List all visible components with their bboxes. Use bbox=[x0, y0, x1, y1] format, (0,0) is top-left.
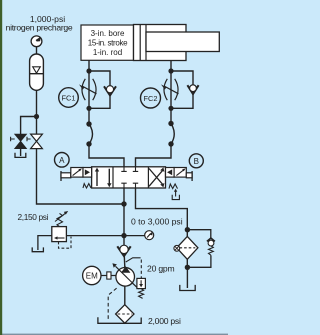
node: FC2 bottom junction bbox=[168, 106, 173, 111]
hose FC2 (flexible) bbox=[171, 124, 174, 145]
electric motor EM bbox=[83, 266, 101, 284]
wire: pump suction bbox=[124, 286, 126, 305]
node: FC1 hose top bbox=[86, 121, 91, 126]
bypass check valve CV2 bbox=[207, 238, 215, 241]
wire: to tank T2 bbox=[186, 267, 188, 288]
DV1 centre envelope blocked ports bbox=[121, 167, 138, 188]
tank T2 bbox=[180, 285, 195, 291]
svg-text:20 gpm: 20 gpm bbox=[147, 263, 175, 273]
left green border bbox=[0, 0, 2, 335]
svg-text:2,000 psi: 2,000 psi bbox=[148, 316, 181, 326]
tank T3 (reservoir) bbox=[98, 317, 141, 323]
return filter F2 bbox=[177, 236, 198, 259]
wire: rod-end port down (FC2 column) bbox=[170, 61, 172, 124]
wire: V1 to tank T1 bbox=[20, 149, 22, 156]
wire: valve T port to return filter bbox=[136, 188, 188, 236]
label: 1,000-psi nitrogen precharge bbox=[6, 14, 73, 32]
yoke link bbox=[133, 283, 137, 287]
compensator spring bbox=[139, 289, 144, 299]
DV1 pilot drain to tank bbox=[175, 191, 177, 197]
label circle FC2 bbox=[141, 88, 161, 108]
node: junction accumulator branch bbox=[34, 114, 39, 119]
cylinder spec box bbox=[81, 25, 134, 60]
wire: relief valve to tank bbox=[38, 236, 52, 250]
svg-text:15-in. stroke: 15-in. stroke bbox=[88, 39, 128, 48]
svg-text:1-in. rod: 1-in. rod bbox=[93, 48, 122, 57]
wire: relief valve output to P line bbox=[66, 235, 124, 237]
DV1 right spring bbox=[169, 184, 178, 189]
node: FC1 hose bottom bbox=[86, 141, 91, 146]
svg-text:0 to 3,000 psi: 0 to 3,000 psi bbox=[131, 217, 183, 227]
wire: hose to valve port B bbox=[136, 144, 172, 167]
cylinder C1 piston bbox=[139, 25, 141, 61]
handle mark V1 bbox=[11, 137, 15, 141]
shutoff valve V1 (closed, filled) bbox=[15, 134, 27, 149]
check valve CV-FC1 bbox=[104, 86, 116, 95]
DV1 right envelope crossed arrows bbox=[149, 171, 163, 187]
wire: gauge to accumulator bbox=[36, 47, 38, 55]
bottom hairline border bbox=[0, 334, 228, 335]
svg-text:B: B bbox=[194, 157, 199, 166]
cylinder C1 rod bbox=[146, 32, 219, 52]
accumulator A1 (gas-charged) bbox=[30, 54, 44, 90]
node: FC2 hose bottom bbox=[168, 141, 173, 146]
compensator valve bbox=[137, 278, 146, 288]
wire: bypass top rail bbox=[187, 230, 210, 239]
wire: bypass bottom rail bbox=[187, 255, 211, 267]
accumulator precharge gauge G1 bbox=[31, 36, 42, 47]
wire: hose to valve port A bbox=[89, 144, 124, 167]
node: P junction with relief/gauge bbox=[121, 233, 126, 238]
clogging indicator bbox=[174, 245, 180, 251]
svg-text:nitrogen precharge: nitrogen precharge bbox=[6, 22, 73, 32]
node: return bottom junction bbox=[185, 265, 190, 270]
pressure gauge G2 bbox=[145, 231, 154, 240]
DV1 right proportional solenoid bbox=[174, 168, 186, 178]
wire: cap-end port down (FC1 column) bbox=[88, 60, 90, 124]
flow control FC2 (adjustable) bbox=[164, 79, 179, 100]
wire: gauge stub bbox=[124, 235, 145, 237]
wire: check valve to pump bbox=[123, 256, 126, 267]
pump P1 (variable displacement) bbox=[116, 268, 135, 287]
wire: branch to shutoff valve V1 bbox=[21, 117, 37, 135]
DV1 left spring bbox=[83, 184, 91, 188]
wire: filter to tank junction bbox=[186, 259, 188, 267]
tank T-RV bbox=[32, 247, 43, 251]
svg-text:2,150 psi: 2,150 psi bbox=[18, 212, 49, 222]
svg-text:3-in. bore: 3-in. bore bbox=[91, 29, 125, 38]
node: FC2 top junction bbox=[168, 68, 173, 73]
flow control FC1 (adjustable) bbox=[82, 79, 97, 100]
wire: FC1 bypass loop bbox=[89, 71, 110, 87]
case drain (dashed) bbox=[108, 288, 116, 321]
check valve CV-FC2 bbox=[187, 85, 198, 94]
bypass spring bbox=[209, 246, 214, 255]
DV1 left proportional solenoid bbox=[60, 171, 62, 181]
suction filter F1 bbox=[116, 305, 134, 324]
relief valve RV1 spring and adjuster bbox=[57, 213, 63, 227]
node: P junction with supply bbox=[121, 201, 126, 206]
node: return filter top junction bbox=[185, 227, 190, 232]
svg-text:EM: EM bbox=[86, 272, 98, 281]
relief valve pilot line (dashed) bbox=[59, 237, 72, 249]
shutoff valve V2 (open) bbox=[31, 134, 43, 149]
handle mark V2 bbox=[27, 137, 31, 141]
node: FC1 bottom junction bbox=[86, 106, 91, 111]
wire: main supply line to P junction bbox=[37, 149, 125, 204]
svg-text:A: A bbox=[59, 156, 65, 165]
directional valve DV1 body bbox=[92, 167, 166, 188]
node label A bbox=[55, 153, 70, 168]
compensator pilot line bbox=[126, 258, 141, 262]
relief valve RV1 body bbox=[52, 227, 67, 242]
check valve CV1 (pump outlet) bbox=[117, 246, 130, 256]
svg-text:FC2: FC2 bbox=[144, 94, 158, 103]
wire: valve P port down bbox=[123, 188, 125, 245]
hose FC1 (flexible) bbox=[89, 124, 93, 144]
wire: accumulator down to junction and valve V2 bbox=[36, 90, 38, 134]
label circle FC1 bbox=[59, 88, 79, 108]
DV1 left envelope arrows bbox=[96, 171, 98, 187]
DV1 right solenoid triangle box bbox=[166, 168, 175, 178]
cylinder C1 barrel bbox=[134, 25, 187, 61]
node: FC2 hose top bbox=[168, 121, 173, 126]
node label B bbox=[189, 154, 203, 168]
shaft and coupling bbox=[101, 275, 107, 277]
node: FC1 top junction bbox=[86, 68, 91, 73]
label: 3-in. bore / 15-in. stroke / 1-in. rod bbox=[88, 29, 128, 57]
svg-text:FC1: FC1 bbox=[62, 93, 76, 102]
tank T1 bbox=[15, 153, 26, 158]
wire: FC2 bypass loop bbox=[171, 71, 193, 85]
